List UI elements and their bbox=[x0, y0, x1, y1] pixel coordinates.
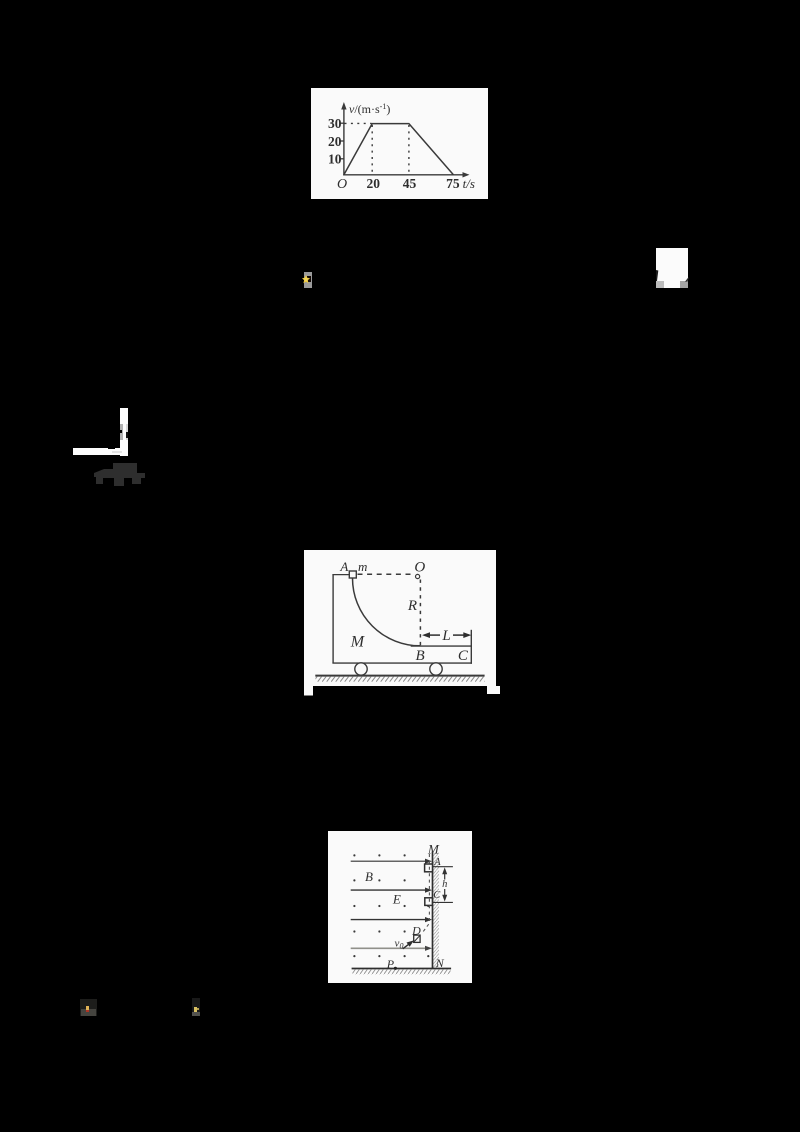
quarter-circle track arc bbox=[353, 578, 421, 646]
L-shaped white mark: horizontal bar bbox=[73, 448, 121, 456]
svg-text:45: 45 bbox=[403, 176, 417, 191]
svg-text:M: M bbox=[350, 633, 366, 650]
lamp yellow tail bbox=[197, 1008, 199, 1010]
B dots row 4 bbox=[353, 930, 405, 932]
svg-text:P: P bbox=[386, 957, 395, 971]
v0 arrowhead bbox=[407, 940, 414, 946]
flame red bbox=[86, 1010, 90, 1013]
L left arrowhead bbox=[422, 632, 430, 638]
patch dark notch bottom-right bbox=[685, 277, 689, 282]
svg-text:20: 20 bbox=[328, 134, 342, 149]
h bottom reference line bbox=[433, 901, 453, 903]
tick 10 bbox=[340, 158, 344, 160]
light gray strip in horizontal bar bbox=[112, 451, 122, 453]
wall MN bbox=[432, 852, 434, 969]
block D bbox=[414, 935, 420, 942]
yellow star blob bbox=[302, 275, 310, 284]
v-t trapezoid line bbox=[344, 124, 454, 175]
block m at A bbox=[349, 571, 356, 578]
black notch on top of horizontal bar bbox=[108, 448, 115, 449]
svg-text:E: E bbox=[392, 892, 401, 907]
cart right wall bbox=[470, 630, 472, 664]
dotted guide at v=30 bbox=[345, 122, 372, 124]
dashed trajectory vertical bbox=[428, 854, 430, 924]
panel bottom-right lip bbox=[487, 686, 500, 694]
field line 3 arrowhead bbox=[425, 917, 432, 922]
B dots row 1 bbox=[353, 854, 405, 856]
ground line bbox=[352, 968, 452, 970]
h top reference line bbox=[433, 866, 453, 868]
field line 1 arrowhead bbox=[425, 859, 432, 864]
svg-text:t/s: t/s bbox=[463, 176, 475, 191]
ground hatching bbox=[316, 676, 485, 681]
h arrow upper segment bbox=[444, 870, 446, 880]
x-axis arrowhead bbox=[463, 172, 470, 177]
wall hatching bbox=[433, 853, 439, 969]
icon: small gray card with yellow star (page margin mark) bbox=[304, 272, 312, 288]
left wheel bbox=[355, 663, 367, 675]
icon: dark tile with yellow lamp (right) bbox=[192, 998, 201, 1016]
B dots row 2 bbox=[353, 879, 405, 881]
patch gray square bottom-right bbox=[680, 281, 688, 288]
svg-text:h: h bbox=[442, 879, 447, 890]
lamp gray base bbox=[192, 1012, 200, 1016]
flame yellow bbox=[86, 1006, 90, 1010]
svg-text:m: m bbox=[358, 559, 367, 574]
y-axis arrowhead bbox=[341, 102, 346, 110]
h up arrowhead bbox=[442, 867, 447, 874]
cart left wall bbox=[332, 575, 334, 664]
block A on wall bbox=[425, 864, 433, 872]
v0 arrow bbox=[403, 942, 412, 949]
dashed trajectory diagonal bbox=[422, 924, 429, 933]
lamp yellow bbox=[194, 1007, 198, 1012]
right wheel bbox=[430, 663, 442, 675]
svg-text:A: A bbox=[339, 559, 348, 574]
field line 4 (faint) bbox=[351, 947, 428, 949]
panel background bbox=[304, 550, 496, 686]
platform top line B to C bbox=[411, 645, 472, 647]
svg-text:L: L bbox=[441, 628, 450, 644]
block D hatch bbox=[414, 936, 419, 942]
dark car-like silhouette bbox=[92, 460, 148, 490]
field line 2 bbox=[351, 889, 428, 891]
svg-text:B: B bbox=[416, 648, 425, 664]
svg-text:30: 30 bbox=[328, 116, 342, 131]
dark chunk inside card bbox=[307, 276, 310, 282]
dark blob on right edge of vertical bar bbox=[126, 432, 128, 437]
patch gray square bottom-left bbox=[656, 281, 663, 288]
field line 3 bbox=[351, 919, 428, 921]
B dots row 5 bbox=[353, 955, 429, 957]
black notch on left of vertical bar bbox=[120, 430, 122, 433]
panel bottom-left lip bbox=[304, 686, 313, 696]
icon: dark tile with flame (left) bbox=[80, 999, 97, 1016]
point P dot bbox=[394, 967, 397, 970]
cart top-left edge to block bbox=[332, 574, 349, 576]
tick 30 bbox=[340, 122, 344, 124]
B dots row 3 bbox=[353, 905, 429, 907]
panel background bbox=[311, 88, 488, 199]
h arrow lower segment bbox=[444, 889, 446, 898]
flame icon gray base bbox=[81, 1009, 96, 1016]
dotted radius O to B bbox=[419, 580, 421, 646]
small circle at O bbox=[416, 574, 420, 578]
gray segment inside vertical bar bbox=[120, 424, 123, 440]
figure 3: charged-particle field region panel bbox=[328, 831, 472, 983]
figure 1: velocity-time graph panel bbox=[311, 88, 488, 199]
svg-text:C: C bbox=[433, 890, 441, 901]
dashed line A to O bbox=[358, 573, 415, 575]
field line 4 arrowhead bbox=[425, 946, 432, 951]
svg-text:B: B bbox=[365, 869, 373, 884]
svg-text:C: C bbox=[458, 648, 469, 664]
block C on wall bbox=[425, 898, 433, 906]
field line 1 bbox=[351, 860, 428, 862]
svg-text:10: 10 bbox=[328, 152, 342, 167]
svg-text:20: 20 bbox=[367, 176, 381, 191]
ground hatching bbox=[353, 969, 451, 974]
cart bottom bbox=[332, 662, 472, 664]
figure 2: cart with quarter-circle track panel bbox=[304, 550, 502, 696]
L right arrowhead bbox=[463, 632, 471, 638]
L dimension arrow left segment bbox=[425, 634, 441, 636]
ground line bbox=[315, 675, 484, 677]
svg-text:A: A bbox=[433, 857, 441, 868]
white patch top-right bbox=[656, 248, 688, 288]
svg-text:O: O bbox=[414, 560, 425, 576]
svg-text:O: O bbox=[337, 177, 347, 192]
h down arrowhead bbox=[442, 895, 447, 902]
x-axis bbox=[343, 174, 466, 176]
field line 2 arrowhead bbox=[425, 888, 432, 893]
svg-text:R: R bbox=[407, 598, 417, 614]
L dimension arrow right segment bbox=[453, 634, 469, 636]
tick 20 bbox=[340, 140, 344, 142]
patch dark wedge on left edge bbox=[656, 270, 660, 282]
L-shaped white mark: vertical bar bbox=[120, 408, 128, 456]
lighter gray right segment of vertical bar bbox=[126, 424, 128, 440]
panel background bbox=[328, 831, 472, 983]
y-axis bbox=[343, 107, 345, 176]
svg-text:75: 75 bbox=[446, 176, 460, 191]
dotted guide at t=20 bbox=[371, 125, 373, 174]
dotted guide at t=45 bbox=[408, 125, 410, 174]
